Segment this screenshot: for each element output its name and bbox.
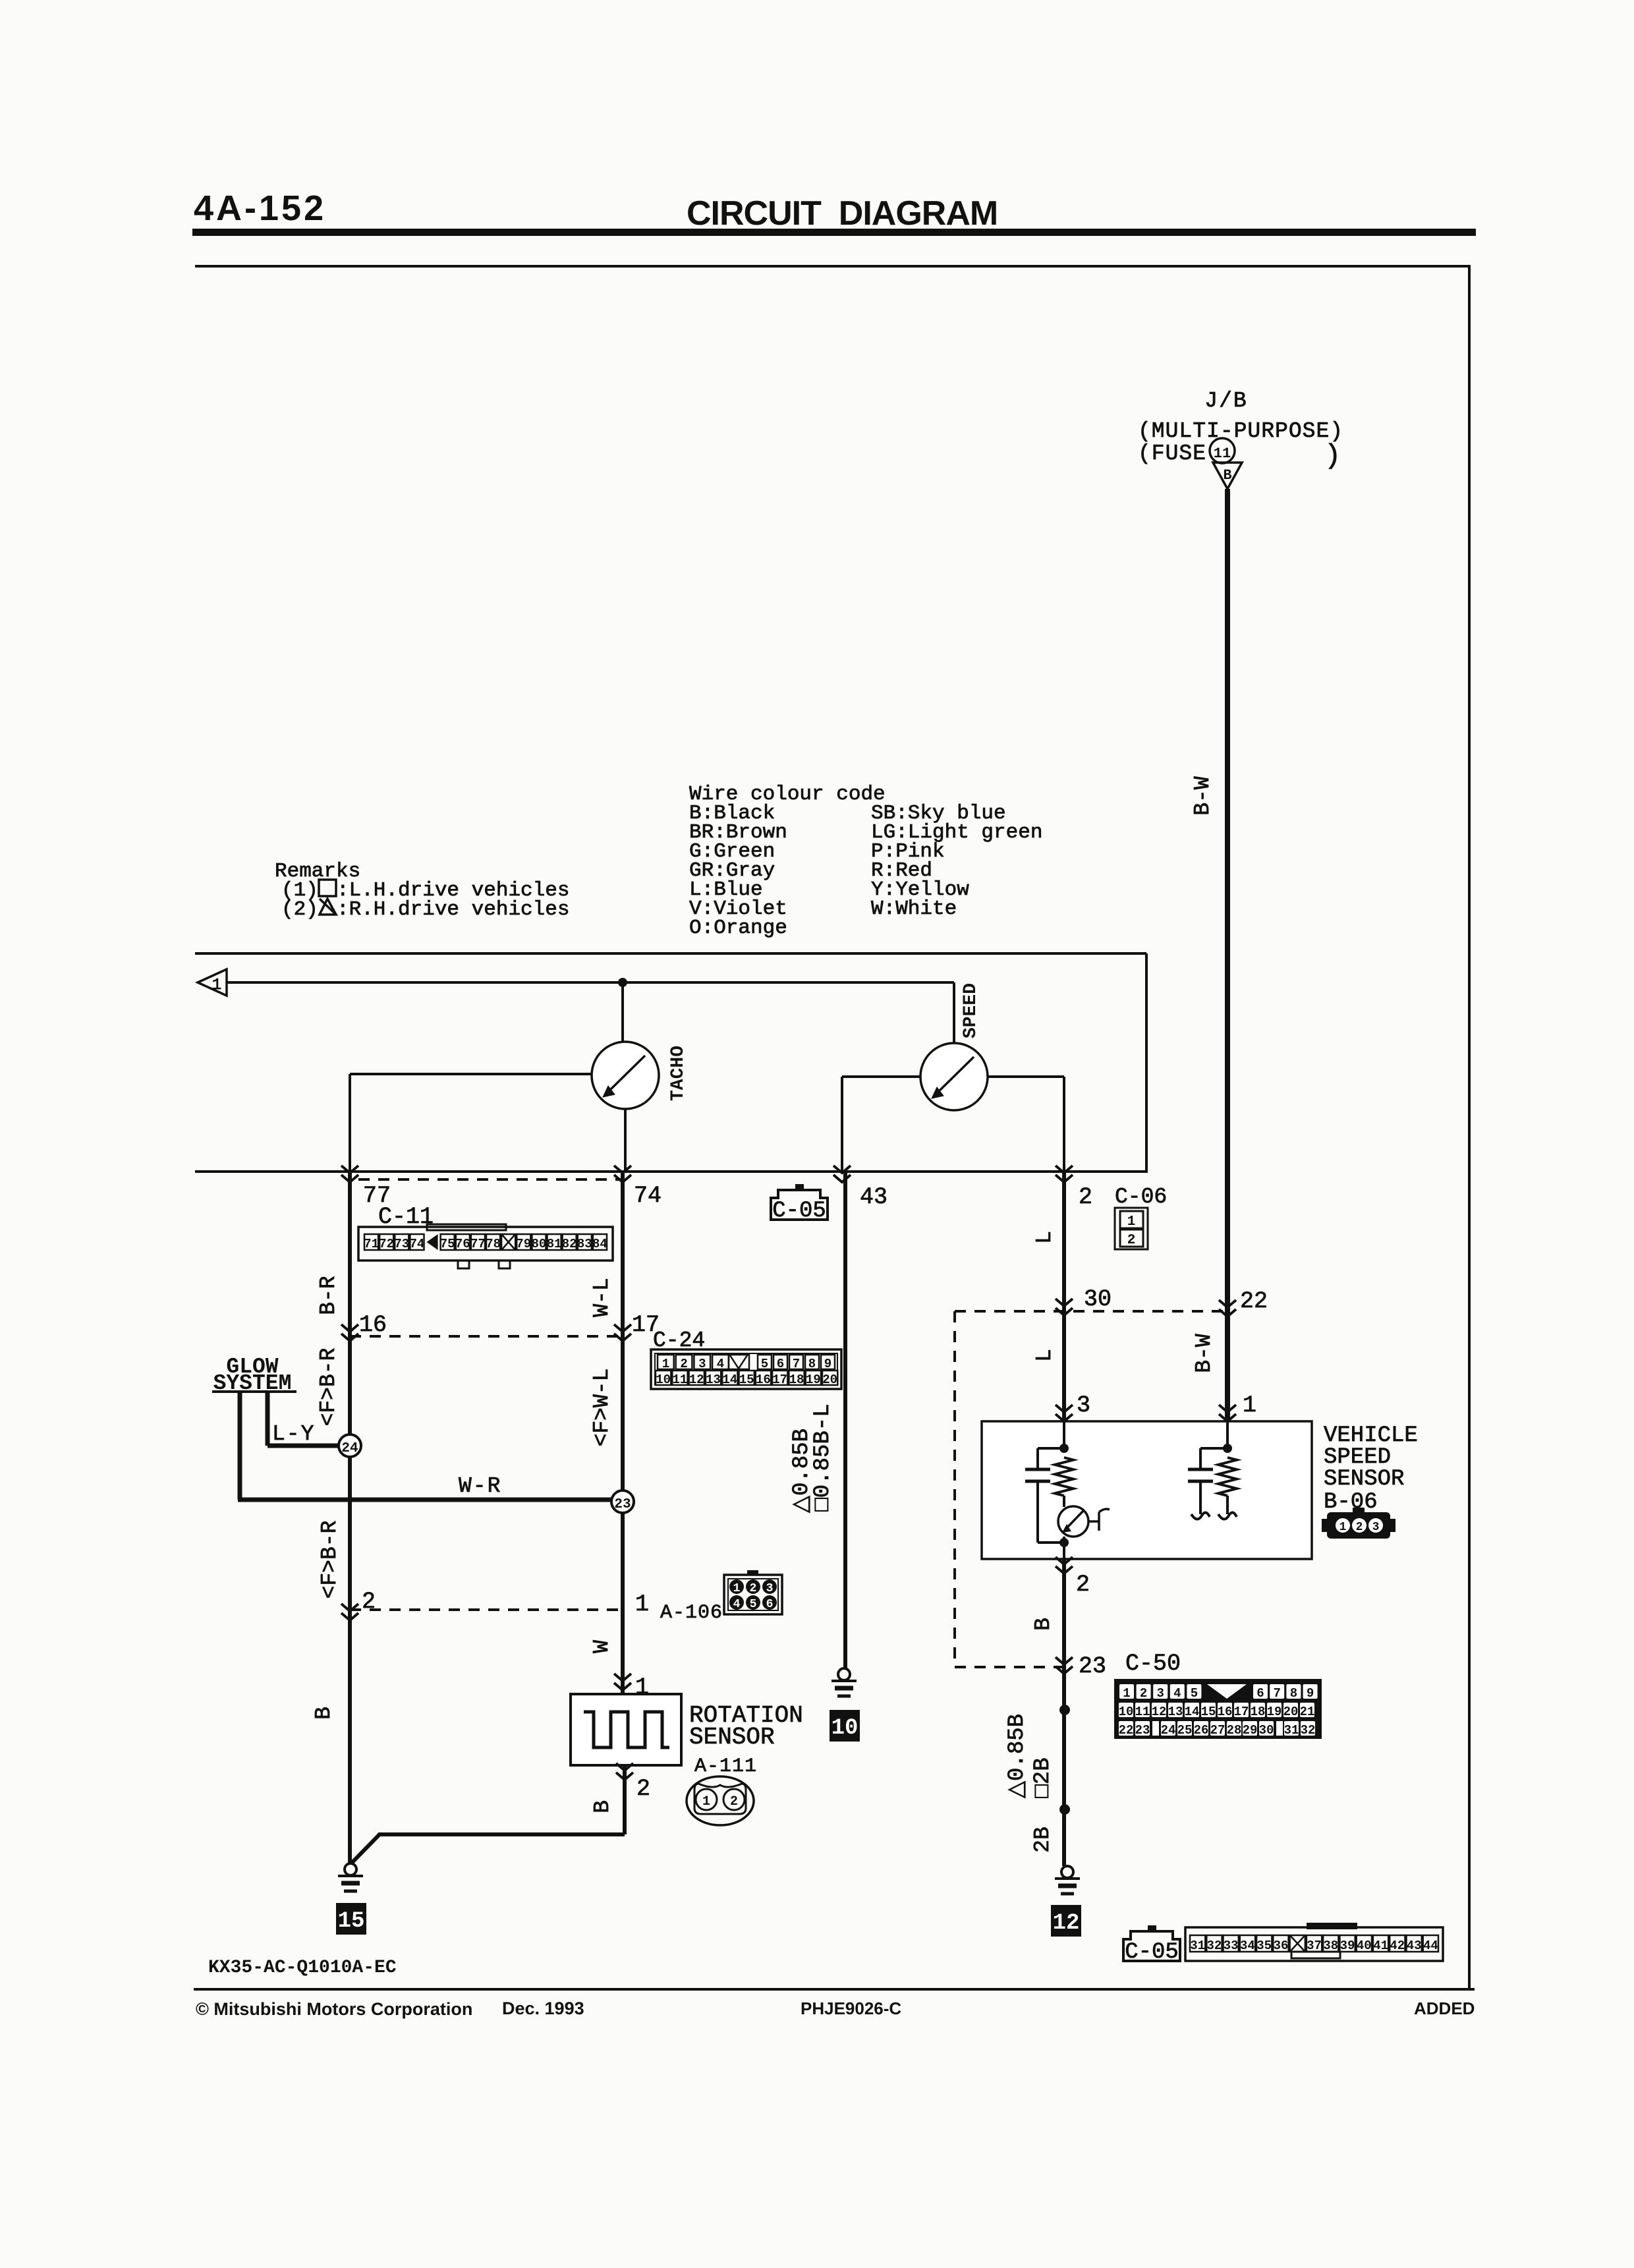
svg-text:B: B [312,1707,336,1720]
svg-text:7: 7 [1273,1686,1280,1701]
svg-text:1: 1 [733,1582,741,1595]
svg-text:24: 24 [1161,1723,1176,1738]
svg-text:6: 6 [777,1357,784,1371]
svg-text:9: 9 [824,1357,831,1371]
svg-text:□2B: □2B [1030,1757,1056,1798]
svg-text:22: 22 [1240,1288,1268,1315]
svg-text:11: 11 [1135,1705,1150,1719]
svg-text:ADDED: ADDED [1414,1999,1475,2018]
svg-text:TACHO: TACHO [668,1046,689,1101]
svg-text:L: L [1032,1231,1057,1244]
svg-text:25: 25 [1177,1723,1193,1738]
svg-text:W:White: W:White [871,897,957,921]
svg-text:74: 74 [634,1183,662,1209]
svg-text:82: 82 [562,1237,577,1251]
svg-text:<F>B-R: <F>B-R [316,1348,341,1427]
svg-text:2: 2 [1140,1686,1147,1701]
svg-text:3: 3 [766,1582,774,1595]
svg-text:23: 23 [1135,1723,1150,1738]
svg-text:1: 1 [212,977,221,994]
svg-text:34: 34 [1240,1939,1255,1953]
svg-text:15: 15 [1201,1705,1216,1719]
svg-text:73: 73 [394,1237,409,1251]
svg-text:5: 5 [1191,1686,1198,1701]
svg-text:): ) [1324,440,1341,472]
svg-text:14: 14 [722,1373,737,1387]
svg-text:12: 12 [1053,1911,1080,1936]
svg-text:W-R: W-R [459,1474,501,1498]
svg-text:SPEED: SPEED [961,983,981,1038]
svg-text:74: 74 [409,1237,424,1251]
svg-text:2: 2 [1079,1184,1092,1210]
svg-text:8: 8 [1290,1686,1297,1701]
svg-text:4: 4 [1173,1686,1181,1701]
svg-text:9: 9 [1307,1686,1314,1701]
svg-text:41: 41 [1373,1939,1388,1953]
svg-text:78: 78 [486,1237,501,1251]
svg-text:A-111: A-111 [694,1755,757,1778]
svg-text:W: W [590,1640,614,1653]
svg-text:2: 2 [1076,1572,1090,1598]
svg-text:43: 43 [1407,1939,1422,1953]
svg-text:80: 80 [531,1237,546,1251]
svg-text:2: 2 [1356,1521,1363,1534]
svg-text:(MULTI-PURPOSE): (MULTI-PURPOSE) [1138,419,1343,443]
svg-text:13: 13 [1168,1705,1183,1719]
svg-text:21: 21 [1300,1705,1315,1719]
svg-text:19: 19 [1267,1705,1282,1719]
svg-text:SENSOR: SENSOR [1324,1467,1404,1492]
svg-text:12: 12 [689,1373,704,1387]
svg-text:31: 31 [1284,1723,1299,1738]
svg-text:3: 3 [698,1357,706,1371]
svg-text:18: 18 [789,1373,804,1387]
svg-text:39: 39 [1340,1939,1355,1953]
svg-text:4: 4 [733,1598,741,1611]
svg-text:30: 30 [1259,1723,1274,1738]
svg-text:24: 24 [341,1441,358,1456]
svg-text:5: 5 [761,1357,768,1371]
svg-text:76: 76 [455,1237,470,1251]
svg-text:B: B [1031,1618,1056,1631]
svg-text:35: 35 [1256,1939,1272,1953]
svg-text:C-06: C-06 [1115,1185,1167,1209]
svg-text:PHJE9026-C: PHJE9026-C [801,1999,901,2018]
svg-text:C-50: C-50 [1125,1651,1181,1677]
svg-text:20: 20 [1283,1705,1299,1719]
svg-text:6: 6 [766,1598,774,1611]
svg-text:B-R: B-R [316,1276,341,1315]
svg-text:3: 3 [1156,1686,1164,1701]
svg-text:14: 14 [1185,1705,1200,1719]
svg-text:CIRCUIT DIAGRAM: CIRCUIT DIAGRAM [687,194,998,233]
svg-text:22: 22 [1119,1723,1134,1738]
svg-text:© Mitsubishi Motors Corporatio: © Mitsubishi Motors Corporation [196,1999,472,2019]
svg-text:B-W: B-W [1192,1334,1216,1373]
svg-text:33: 33 [1224,1939,1239,1953]
svg-text:1: 1 [1339,1521,1347,1534]
svg-text:81: 81 [547,1237,562,1251]
svg-text:<F>W-L: <F>W-L [590,1369,614,1447]
svg-text:83: 83 [577,1237,592,1251]
svg-text:40: 40 [1357,1939,1372,1953]
svg-text:28: 28 [1227,1723,1242,1738]
svg-text:△0.85B: △0.85B [1005,1714,1030,1798]
svg-text:16: 16 [756,1373,771,1387]
svg-text:B-06: B-06 [1324,1490,1378,1515]
svg-text:71: 71 [364,1237,379,1251]
svg-text:10: 10 [1119,1705,1134,1719]
svg-text:36: 36 [1274,1939,1289,1953]
svg-text:23: 23 [1079,1653,1106,1680]
svg-text:42: 42 [1390,1939,1405,1953]
svg-text:11: 11 [1214,445,1231,462]
svg-text:1: 1 [1127,1214,1136,1230]
svg-text:(2): (2) [281,898,318,921]
svg-text:L-Y: L-Y [272,1422,315,1446]
svg-text:SENSOR: SENSOR [689,1724,775,1751]
svg-text:8: 8 [808,1357,816,1371]
svg-text:(FUSE: (FUSE [1138,441,1206,466]
svg-text:B: B [1223,467,1231,484]
svg-text:15: 15 [739,1373,754,1387]
svg-text:18: 18 [1251,1705,1266,1719]
svg-text:2B: 2B [1030,1827,1055,1853]
svg-text:16: 16 [1218,1705,1233,1719]
svg-text:□0.85B-L: □0.85B-L [810,1403,835,1511]
svg-text:C-05: C-05 [772,1199,826,1224]
svg-text:2: 2 [730,1794,738,1809]
svg-text:17: 17 [772,1373,787,1387]
svg-text:72: 72 [379,1237,394,1251]
svg-text:3: 3 [1372,1521,1380,1534]
svg-text:16: 16 [359,1312,387,1338]
svg-text:29: 29 [1243,1723,1258,1738]
svg-text:27: 27 [1210,1723,1225,1738]
svg-text:J/B: J/B [1204,389,1247,413]
svg-text:6: 6 [1256,1686,1264,1701]
svg-text:12: 12 [1152,1705,1167,1719]
svg-text:O:Orange: O:Orange [689,917,787,940]
svg-text:2: 2 [750,1582,757,1595]
svg-text:1: 1 [1243,1392,1256,1419]
svg-text:2: 2 [1127,1233,1136,1248]
svg-text:10: 10 [656,1373,671,1387]
svg-text:<F>B-R: <F>B-R [318,1521,342,1599]
svg-text:1: 1 [1123,1686,1130,1701]
svg-text:32: 32 [1301,1723,1316,1738]
svg-text:2: 2 [636,1776,650,1802]
svg-text:3: 3 [1077,1392,1090,1419]
svg-text:B-W: B-W [1191,776,1215,816]
svg-text:A-106: A-106 [660,1602,723,1624]
svg-text:2: 2 [680,1357,687,1371]
svg-text:1: 1 [662,1357,669,1371]
svg-text:1: 1 [702,1794,710,1809]
svg-text:79: 79 [516,1237,531,1251]
svg-text:75: 75 [440,1237,455,1251]
svg-text:84: 84 [592,1237,607,1251]
svg-text:4: 4 [717,1357,724,1371]
svg-text:30: 30 [1084,1286,1112,1313]
svg-text:C-05: C-05 [1125,1940,1179,1965]
svg-text:1: 1 [635,1591,649,1618]
svg-text:23: 23 [614,1497,631,1512]
svg-text:44: 44 [1423,1939,1438,1953]
svg-text::R.H.drive vehicles: :R.H.drive vehicles [337,898,569,921]
svg-text:11: 11 [672,1373,687,1387]
svg-text:Dec. 1993: Dec. 1993 [502,1999,584,2018]
svg-text:L: L [1032,1349,1057,1362]
svg-text:5: 5 [750,1598,757,1611]
svg-text:10: 10 [831,1716,859,1741]
svg-text:KX35-AC-Q1010A-EC: KX35-AC-Q1010A-EC [208,1958,397,1978]
svg-text:20: 20 [822,1373,837,1387]
svg-text:4A-152: 4A-152 [194,188,326,228]
svg-text:32: 32 [1206,1939,1222,1953]
svg-text:77: 77 [470,1237,486,1251]
svg-text:43: 43 [860,1184,887,1210]
svg-text:17: 17 [1234,1705,1249,1719]
svg-text:31: 31 [1190,1939,1205,1953]
svg-text:7: 7 [793,1357,800,1371]
svg-text:13: 13 [706,1373,721,1387]
svg-text:19: 19 [806,1373,821,1387]
svg-text:26: 26 [1194,1723,1209,1738]
svg-text:B: B [590,1800,615,1813]
svg-text:W-L: W-L [590,1278,614,1317]
svg-text:15: 15 [338,1909,365,1934]
